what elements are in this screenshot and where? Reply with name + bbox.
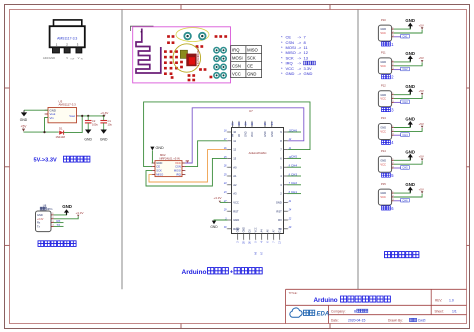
net port CH5	[401, 166, 410, 170]
svg-text:+5V: +5V	[21, 124, 28, 128]
connector P15 channel 6	[378, 182, 394, 205]
power flag +5V	[419, 23, 424, 29]
svg-text:22: 22	[250, 122, 254, 126]
svg-text:4: 4	[262, 241, 264, 243]
svg-text:5: 5	[391, 173, 394, 178]
net port CH3	[401, 100, 410, 104]
svg-text:A0: A0	[233, 165, 237, 169]
svg-text:CH3: CH3	[402, 100, 408, 104]
svg-text:VCC: VCC	[175, 161, 181, 165]
svg-text:D1: D1	[59, 126, 63, 130]
AMS1117 SOT-223 package drawing	[43, 20, 85, 61]
wire diode to Vout node	[64, 116, 83, 133]
regulator U3 AMS1117-3.3	[44, 99, 78, 123]
svg-text:24: 24	[288, 209, 292, 212]
wire CE net green loop	[144, 102, 310, 167]
svg-text:+5V: +5V	[419, 122, 424, 126]
svg-text:5V->3.3V: 5V->3.3V	[34, 157, 57, 163]
svg-text:GND: GND	[156, 146, 165, 150]
svg-text:10u: 10u	[108, 122, 113, 126]
ground flag bold	[405, 117, 415, 127]
note pin mapping list	[281, 35, 316, 76]
label 通道6	[382, 206, 395, 211]
svg-text:6: 6	[391, 206, 394, 211]
Drawn By field	[388, 318, 426, 322]
svg-text:20: 20	[237, 122, 241, 126]
svg-text:1N4148: 1N4148	[56, 135, 66, 139]
svg-text:->: ->	[298, 71, 302, 76]
svg-text:GND: GND	[245, 131, 248, 137]
svg-text:+3.3V: +3.3V	[214, 196, 222, 200]
ground flag bold	[405, 84, 415, 94]
svg-text:+5V: +5V	[419, 155, 424, 159]
wire CH3 stub	[288, 175, 302, 177]
svg-text:GND: GND	[156, 161, 162, 165]
svg-text:25: 25	[223, 173, 227, 176]
net label CH4	[291, 164, 297, 168]
svg-text:28: 28	[244, 241, 246, 244]
svg-text:CSN: CSN	[232, 64, 241, 69]
svg-text:2: 2	[238, 241, 240, 243]
svg-text:VCC: VCC	[380, 162, 386, 166]
U7 right pins	[276, 129, 292, 231]
svg-text:13: 13	[280, 241, 282, 244]
power flag +5V input	[21, 124, 28, 131]
svg-text:A7: A7	[261, 251, 264, 255]
power flag +5V	[419, 187, 424, 193]
svg-text:VCC: VCC	[380, 130, 386, 134]
wire VCC pin	[394, 161, 422, 164]
svg-text:RX: RX	[278, 218, 282, 222]
net port CH4	[401, 133, 410, 137]
power flag +5V	[419, 122, 424, 128]
svg-text:GND: GND	[405, 182, 415, 187]
net port CH2	[401, 67, 410, 71]
svg-text:MISO: MISO	[156, 173, 163, 177]
svg-text:29: 29	[223, 209, 227, 212]
ground flag left of U3	[20, 110, 28, 122]
svg-text:P10: P10	[381, 18, 386, 22]
net port CH6	[401, 198, 410, 202]
wire GND net regulator	[24, 109, 48, 111]
svg-text:24: 24	[223, 182, 227, 185]
wire GND pin	[394, 26, 411, 30]
ground under C2	[84, 130, 92, 142]
ground flag at NRF GND	[150, 146, 164, 163]
wire GND pin	[394, 190, 411, 194]
svg-text:GND: GND	[405, 84, 415, 89]
ground flag bold	[405, 149, 415, 159]
svg-text:U8: U8	[43, 204, 47, 208]
svg-text:P11: P11	[381, 51, 386, 55]
svg-text:CH1: CH1	[402, 34, 408, 38]
svg-text:NRF24L01 +5 IN: NRF24L01 +5 IN	[160, 157, 180, 161]
svg-text:2: 2	[391, 75, 394, 80]
label 通道1	[382, 42, 395, 47]
svg-text:Drawn By:: Drawn By:	[388, 319, 403, 323]
svg-text:CSN: CSN	[175, 165, 181, 169]
svg-text:10: 10	[233, 130, 236, 134]
svg-text:6: 6	[268, 241, 270, 243]
svg-text:VCC: VCC	[233, 201, 239, 205]
svg-text:P13: P13	[381, 116, 386, 120]
svg-text:Arduino: Arduino	[182, 269, 207, 276]
wire VCC pin	[394, 62, 422, 65]
svg-text:VCC: VCC	[256, 227, 258, 232]
svg-text:MOSI: MOSI	[232, 56, 243, 61]
svg-text:+: +	[230, 269, 234, 275]
wire GND pin	[394, 58, 411, 62]
connector P12 channel 3	[378, 83, 394, 106]
svg-text:CH6: CH6	[402, 198, 408, 202]
svg-text:GND: GND	[380, 126, 386, 130]
Date field	[331, 319, 365, 323]
wire VCC pin	[394, 128, 422, 131]
section divider line right	[357, 10, 359, 290]
svg-text:EDA: EDA	[317, 312, 330, 318]
net label RX	[57, 219, 61, 223]
svg-text:TITLE:: TITLE:	[289, 291, 298, 295]
svg-text:SCK: SCK	[156, 169, 162, 173]
REV field	[435, 299, 454, 303]
svg-text:2.4GHzNRF24L01: 2.4GHzNRF24L01	[198, 46, 200, 66]
svg-text:+3.3V: +3.3V	[37, 218, 44, 221]
svg-text:V: V	[78, 56, 80, 60]
wire GND pin	[394, 91, 411, 95]
U7 left pins	[223, 129, 240, 231]
title block	[286, 289, 467, 323]
label 通道5	[382, 173, 395, 178]
wire GND pin	[394, 157, 411, 161]
svg-text:GND: GND	[84, 138, 92, 142]
svg-text:GND: GND	[405, 18, 415, 23]
label 通道2	[382, 75, 395, 80]
power flag +5V	[419, 56, 424, 62]
svg-text:P15: P15	[381, 182, 386, 186]
svg-text:V: V	[66, 56, 68, 60]
svg-text:OUT: OUT	[70, 59, 75, 61]
svg-text:+3.3V: +3.3V	[100, 111, 109, 115]
svg-text:AMS1117-3.3: AMS1117-3.3	[57, 37, 77, 41]
svg-text:CE: CE	[247, 64, 253, 69]
svg-text:GND: GND	[405, 149, 415, 154]
svg-text:VCC: VCC	[232, 72, 241, 77]
ground flag bold	[405, 182, 415, 192]
wire TX pin4	[54, 225, 64, 227]
capacitor C2 100u	[85, 116, 98, 130]
NRF24L01 module PCB drawing	[131, 26, 231, 83]
svg-text:GND: GND	[244, 227, 246, 232]
svg-text:GND: GND	[405, 51, 415, 56]
svg-text:TX: TX	[57, 223, 61, 227]
svg-text:4Pin: 4Pin	[47, 207, 53, 211]
svg-text:GND: GND	[286, 71, 295, 76]
svg-text:IRQ: IRQ	[176, 173, 181, 177]
svg-text:26: 26	[250, 241, 252, 244]
svg-text:9: 9	[256, 241, 258, 243]
svg-text:REV:: REV:	[435, 299, 442, 303]
ground flag bold above serial	[62, 204, 72, 215]
svg-text:26: 26	[223, 165, 227, 168]
svg-text:+5V: +5V	[419, 187, 424, 191]
svg-text:CH4: CH4	[291, 164, 297, 168]
svg-text:Company:: Company:	[331, 309, 346, 313]
svg-text:30: 30	[224, 226, 227, 229]
svg-text:GND: GND	[100, 138, 108, 142]
svg-text:A3: A3	[233, 192, 237, 196]
svg-text:P12: P12	[381, 83, 386, 87]
label 通道3	[382, 107, 395, 112]
svg-text:12: 12	[233, 148, 236, 152]
power flag +3.3V output	[100, 111, 109, 116]
wire CH5 stub	[288, 157, 302, 159]
U7 bottom pins	[237, 227, 282, 244]
svg-text:20: 20	[288, 226, 292, 229]
svg-text:GND: GND	[380, 60, 386, 64]
svg-text:+3.3V: +3.3V	[76, 211, 84, 215]
section title 串口下载模块	[38, 241, 76, 247]
svg-text:CH4: CH4	[402, 133, 408, 137]
svg-text:VCC: VCC	[251, 132, 254, 137]
IC U7 ArduinoProMini	[232, 109, 284, 233]
wire VCC pin	[394, 30, 422, 33]
wire CH2 stub	[288, 184, 302, 186]
net label CH6	[291, 128, 297, 132]
svg-text:21: 21	[288, 200, 292, 203]
svg-text:GND: GND	[304, 71, 313, 76]
wire junction +5V/Vin	[43, 118, 48, 134]
svg-text:GND: GND	[380, 27, 386, 31]
svg-text:Arduino: Arduino	[314, 297, 338, 304]
wire VCC pin	[394, 95, 422, 98]
label 通道4	[382, 140, 395, 145]
svg-text:ADJ/GND: ADJ/GND	[43, 56, 55, 60]
section divider line left	[121, 10, 123, 290]
svg-text:Sheet:: Sheet:	[435, 309, 444, 313]
wire VCC net purple NRF to U7	[185, 108, 304, 163]
svg-text:GND: GND	[233, 218, 239, 222]
svg-text:Date:: Date:	[331, 319, 339, 323]
module MK2 NRF24L01 symbol	[151, 153, 185, 177]
wire CH1 stub	[288, 193, 302, 195]
svg-text:1.0: 1.0	[449, 299, 454, 303]
connector P14 channel 5	[378, 149, 394, 172]
svg-text:1: 1	[391, 42, 394, 47]
svg-text:ArduinoProMini: ArduinoProMini	[249, 151, 267, 155]
connector U8 serial header	[36, 204, 55, 232]
svg-text:GND: GND	[380, 93, 386, 97]
svg-text:GND: GND	[380, 158, 386, 162]
power flag +5V	[419, 155, 424, 161]
svg-text:CE: CE	[156, 165, 160, 169]
svg-text:IN: IN	[81, 59, 84, 61]
power flag +5V	[419, 89, 424, 95]
svg-text:Vout: Vout	[69, 114, 75, 118]
svg-text:CH3: CH3	[291, 172, 297, 176]
svg-text:3: 3	[391, 107, 394, 112]
wire signal CH1	[394, 36, 401, 38]
wire CSN net	[185, 141, 228, 167]
svg-text:+5V: +5V	[419, 23, 424, 27]
svg-text:GND: GND	[247, 72, 256, 77]
svg-text:A6: A6	[255, 251, 258, 255]
wire signal CH5	[394, 167, 401, 169]
svg-text:A2: A2	[233, 183, 237, 187]
extra bottom labels A6 A7	[255, 251, 264, 255]
svg-text:13: 13	[233, 157, 236, 161]
power flag +5V at NRF VCC	[186, 161, 189, 163]
ground flag bold	[405, 51, 415, 61]
svg-text:23: 23	[223, 191, 227, 194]
section title 5V->3.3V降压模块	[34, 156, 90, 163]
wire signal CH6	[394, 200, 401, 202]
svg-text:RST: RST	[233, 209, 239, 213]
power flag +3.3V at U7 VCC	[214, 196, 228, 202]
wire MISO net orange	[149, 150, 228, 182]
svg-text:CH2: CH2	[291, 181, 297, 185]
net label CH5	[291, 155, 297, 159]
svg-text:VCC: VCC	[380, 97, 386, 101]
svg-text:GND: GND	[276, 201, 282, 205]
svg-text:VCC: VCC	[380, 195, 386, 199]
connector P10 channel 1	[378, 18, 394, 41]
net label CH2	[291, 181, 297, 185]
svg-text:D13: D13	[280, 227, 282, 232]
svg-text:A1: A1	[233, 174, 237, 178]
capacitor C1 10u	[100, 116, 112, 130]
svg-text:GND: GND	[20, 118, 28, 122]
svg-text:GND: GND	[37, 213, 43, 217]
U7 top pins	[231, 121, 274, 137]
svg-text:+5V: +5V	[419, 56, 424, 60]
diode D1 1N4148	[56, 126, 66, 139]
svg-text:7: 7	[274, 241, 276, 243]
net label CH3	[291, 172, 297, 176]
svg-text:MK2: MK2	[160, 153, 166, 157]
svg-text:U7: U7	[249, 109, 253, 113]
svg-text:100u: 100u	[92, 122, 98, 126]
svg-text:IRQ: IRQ	[232, 48, 240, 53]
svg-text:GND: GND	[271, 131, 274, 137]
svg-text:GND: GND	[62, 204, 72, 209]
wire RX pin3	[54, 222, 64, 224]
svg-text:MOSI: MOSI	[174, 169, 181, 173]
svg-text:13: 13	[304, 55, 309, 60]
wire GND pin1	[54, 213, 67, 215]
net label TX	[57, 223, 61, 227]
svg-text:2020-04-15: 2020-04-15	[348, 319, 365, 323]
svg-text:VCC: VCC	[380, 64, 386, 68]
svg-text:P14: P14	[381, 149, 386, 153]
svg-text:SCK: SCK	[247, 56, 256, 61]
wire CH6 stub	[288, 131, 302, 133]
svg-text:22: 22	[288, 217, 292, 220]
svg-text:GND: GND	[264, 131, 267, 137]
wire GND pin	[394, 124, 411, 128]
wire signal CH4	[394, 134, 401, 136]
svg-text:RST: RST	[276, 209, 282, 213]
title text Arduino六通道接收机	[314, 296, 391, 304]
svg-text:*: *	[281, 71, 283, 76]
wire +3.3V pin2	[54, 216, 79, 218]
svg-text:26: 26	[244, 122, 248, 126]
wire VCC pin	[394, 194, 422, 197]
Company field	[331, 309, 368, 313]
svg-text:CwZi: CwZi	[418, 319, 426, 323]
net port CH1	[401, 34, 410, 38]
net label CH1	[291, 190, 297, 194]
wire CH4 stub	[288, 166, 302, 168]
wire Vout rail	[79, 115, 105, 117]
svg-text:AMS1117-3.3: AMS1117-3.3	[59, 103, 77, 107]
pin name table	[231, 46, 262, 78]
svg-text:VCC: VCC	[380, 31, 386, 35]
svg-text:MISO: MISO	[247, 48, 258, 53]
svg-text:CH5: CH5	[291, 155, 297, 159]
connector P11 channel 2	[378, 51, 394, 74]
svg-text:CH2: CH2	[402, 67, 408, 71]
power flag +3.3V serial	[76, 211, 84, 216]
svg-text:14: 14	[270, 122, 274, 126]
section title 六通道输出	[385, 252, 419, 258]
Sheet field	[435, 309, 457, 313]
svg-text:4: 4	[391, 140, 394, 145]
section title Arduino核心板+无线模块	[182, 268, 263, 276]
svg-text:1/1: 1/1	[452, 309, 457, 313]
svg-text:CH6: CH6	[291, 128, 297, 132]
logo 立创EDA	[290, 308, 329, 318]
svg-text:GND: GND	[238, 227, 240, 232]
ground flag at U7 GND	[210, 220, 227, 229]
wire signal CH3	[394, 101, 401, 103]
svg-text:Vin: Vin	[50, 116, 55, 120]
svg-text:18: 18	[224, 129, 227, 132]
svg-text:GND: GND	[210, 225, 218, 229]
svg-text:+5V: +5V	[419, 89, 424, 93]
ground flag bold	[405, 18, 415, 28]
wire +5V to diode	[24, 131, 59, 133]
svg-text:GND: GND	[405, 117, 415, 122]
wire SCK net	[146, 158, 228, 186]
ground under C1	[100, 130, 108, 142]
svg-text:15: 15	[263, 122, 267, 126]
svg-text:CH5: CH5	[402, 166, 408, 170]
svg-text:GND: GND	[380, 191, 386, 195]
svg-text:CH1: CH1	[291, 190, 297, 194]
connector P13 channel 4	[378, 116, 394, 139]
wire signal CH2	[394, 69, 401, 71]
svg-text:21: 21	[231, 122, 235, 126]
